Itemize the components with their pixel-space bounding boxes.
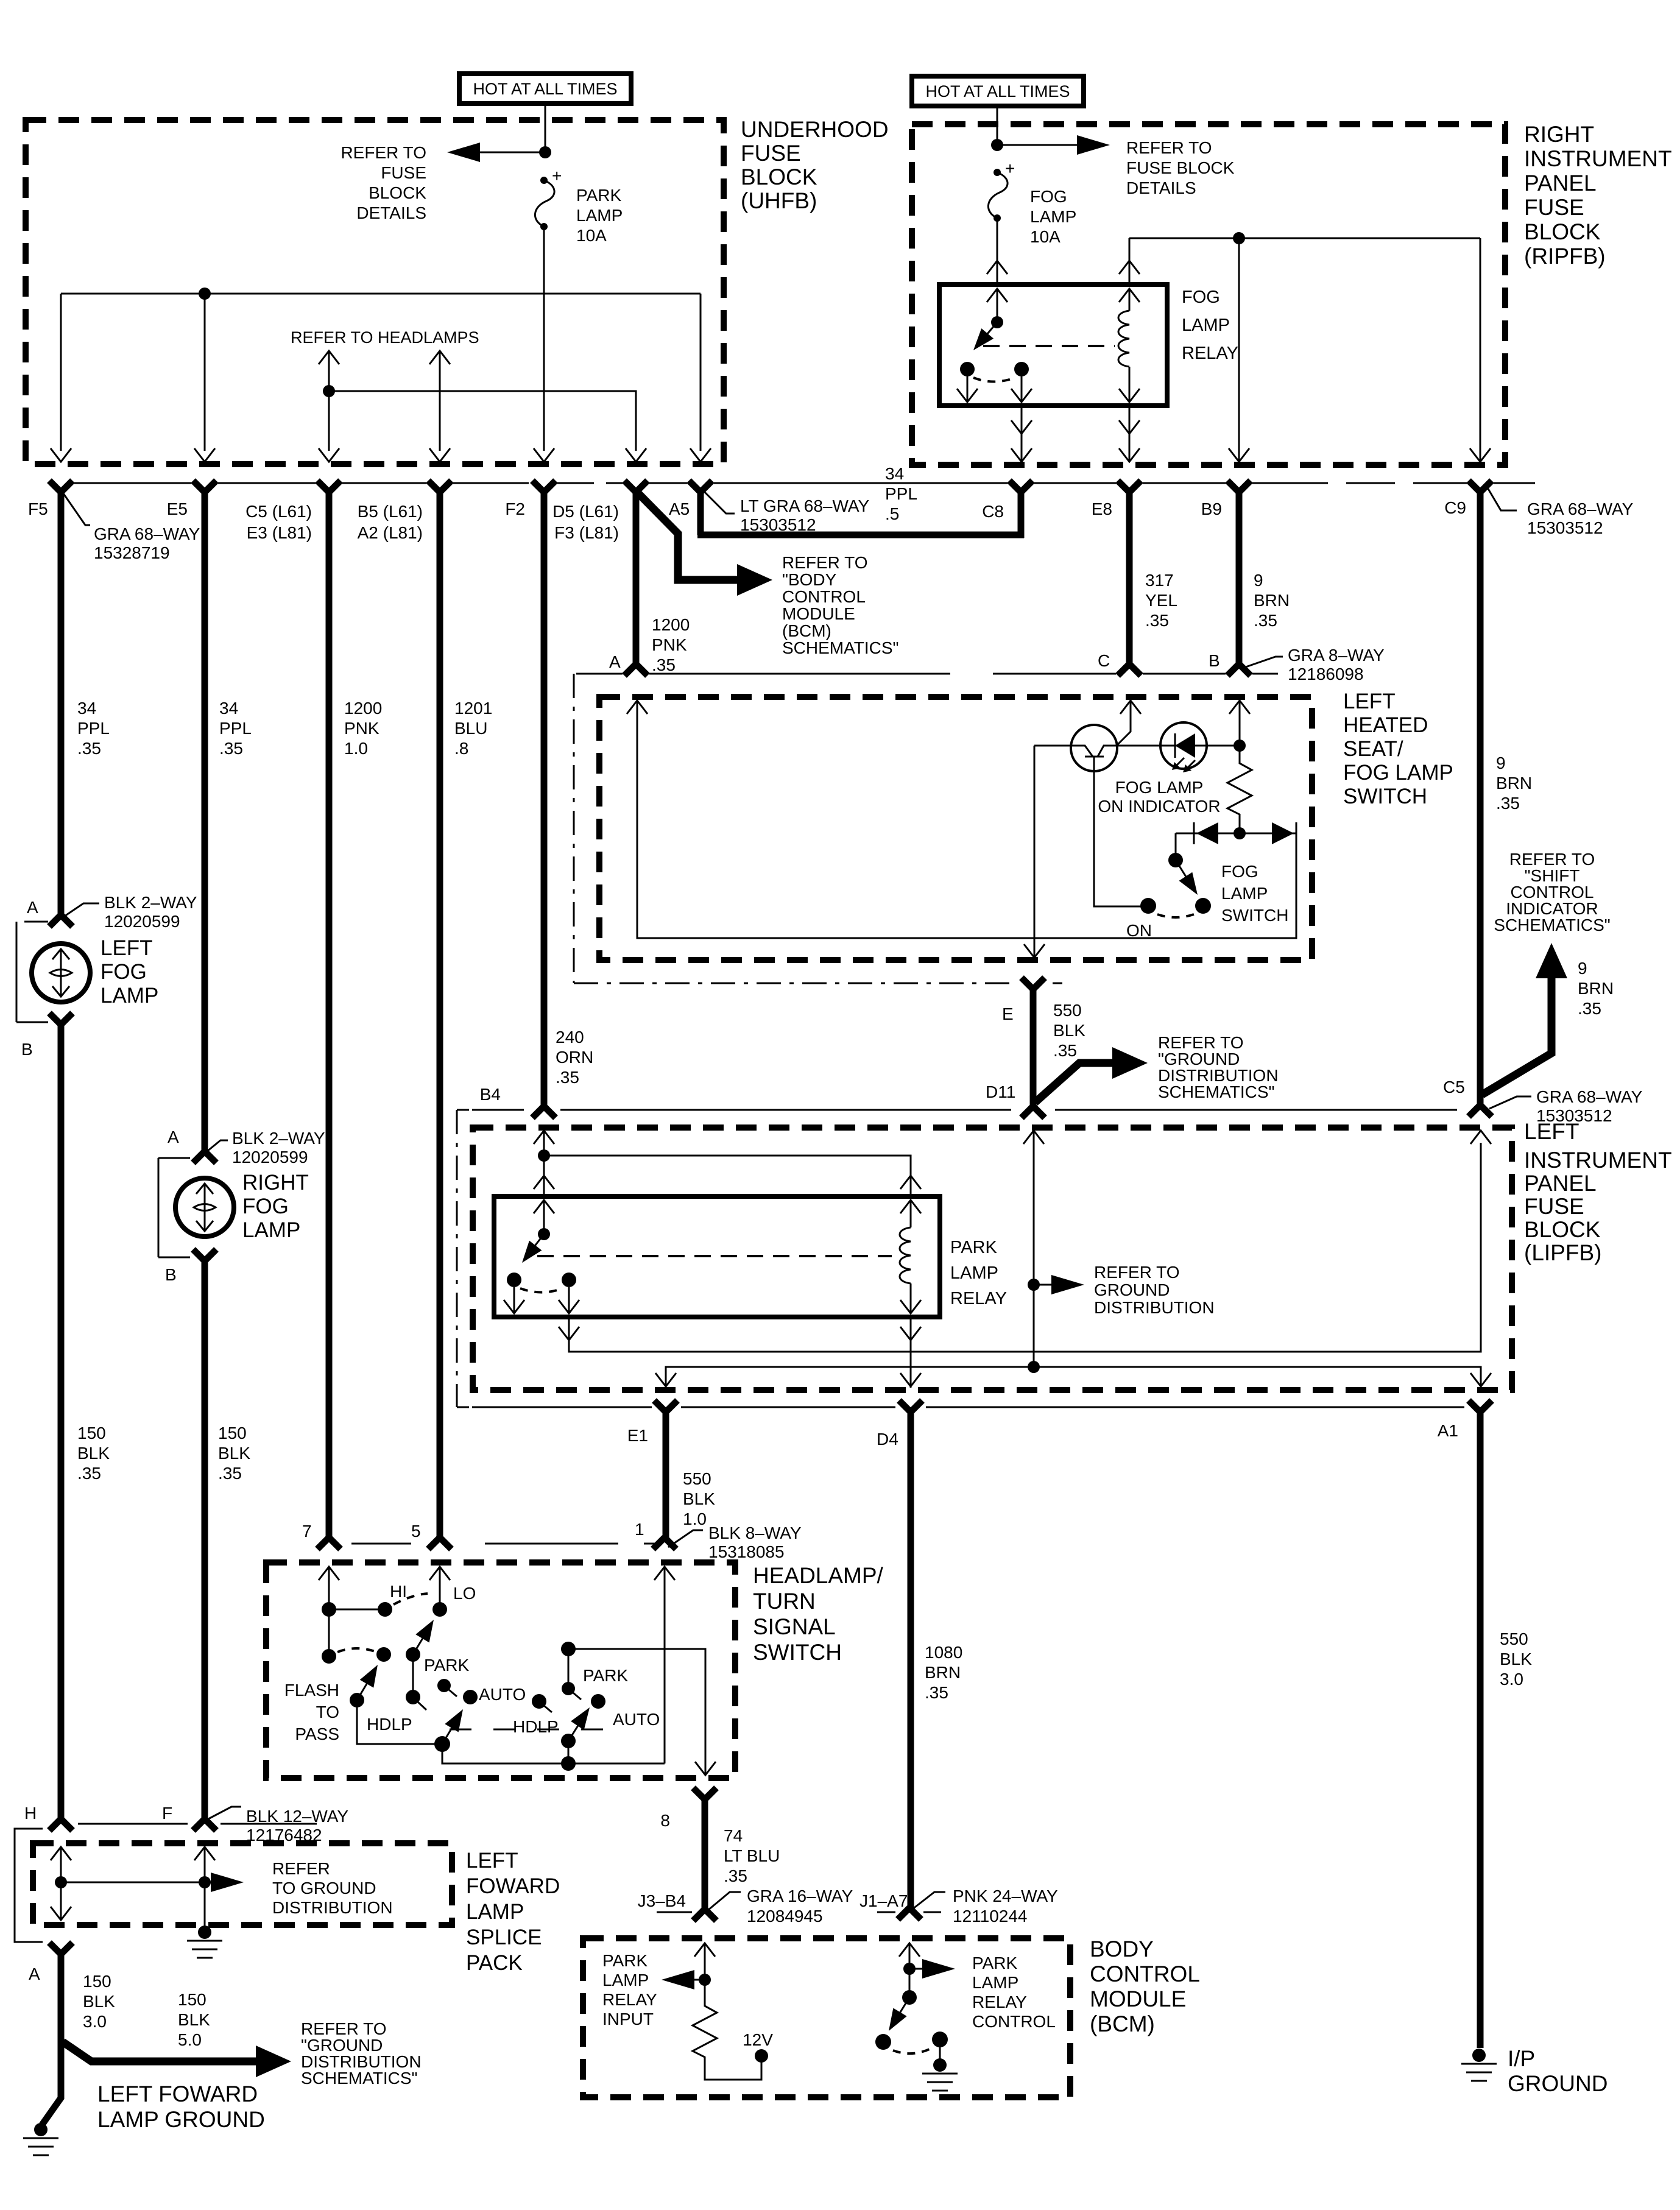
wire LO entry (429, 1567, 450, 1580)
diode right (1272, 822, 1294, 844)
wire C5 to headlamp switch, 1200 PNK 1.0 (326, 491, 333, 1539)
wire F leg (194, 1847, 215, 1860)
svg-text:A: A (29, 1965, 40, 1983)
switch auto selector blade right (561, 1734, 576, 1748)
svg-text:74: 74 (724, 1826, 743, 1845)
label GRA 16-WAY 12084945 (708, 1892, 741, 1910)
svg-text:LAMP: LAMP (950, 1263, 998, 1283)
svg-text:.35: .35 (1578, 999, 1601, 1018)
svg-text:5: 5 (411, 1522, 421, 1541)
outer partial dash-dot box (457, 1109, 469, 1111)
svg-text:1.0: 1.0 (344, 739, 368, 758)
svg-text:B: B (21, 1040, 33, 1059)
svg-text:1200: 1200 (344, 699, 382, 718)
svg-text:LO: LO (453, 1584, 476, 1603)
svg-text:LAMP: LAMP (466, 1900, 524, 1924)
svg-text:12V: 12V (743, 2030, 773, 2049)
svg-text:GROUND: GROUND (1508, 2071, 1608, 2096)
svg-text:FOG: FOG (101, 960, 147, 984)
relay switch feed (534, 1200, 554, 1213)
svg-text:PPL: PPL (77, 719, 110, 738)
wire E to D11, 550 BLK .35 (1030, 988, 1037, 1107)
svg-text:B5 (L61): B5 (L61) (358, 502, 423, 521)
body control module dashed box (583, 1938, 1070, 2097)
svg-text:"BODY: "BODY (782, 570, 837, 589)
svg-text:BLOCK: BLOCK (369, 183, 426, 202)
fuse FOG LAMP 10A (988, 159, 1076, 246)
connector D4 (899, 1400, 922, 1412)
wire coil to D4 exit (910, 1317, 912, 1388)
node junction HI column (322, 1602, 336, 1617)
wire A1 to I/P ground, 550 BLK 3.0 (1477, 1411, 1484, 2048)
relay contact exits (967, 376, 969, 401)
svg-text:A1: A1 (1438, 1421, 1458, 1440)
svg-text:5.0: 5.0 (178, 2030, 202, 2049)
wire right fog lamp B down, 150 BLK .35 (202, 1260, 208, 1820)
svg-text:FUSE: FUSE (741, 141, 801, 166)
label GRA 8-WAY 12186098 (1244, 657, 1283, 668)
label BLK 2-WAY 12020599 (65, 903, 99, 916)
outer partial dash-dot box (574, 674, 1062, 983)
wire B4 feed entry (534, 1131, 554, 1144)
svg-text:.8: .8 (454, 739, 468, 758)
svg-text:1200: 1200 (652, 615, 690, 634)
svg-text:LAMP: LAMP (101, 984, 158, 1008)
connector F2 (532, 481, 556, 492)
svg-text:1.0: 1.0 (683, 1509, 707, 1528)
wire branch 150 BLK 5.0 thick arrow (63, 2042, 256, 2061)
svg-text:.35: .35 (1145, 611, 1169, 630)
svg-text:AUTO: AUTO (479, 1685, 526, 1704)
svg-text:REFER TO: REFER TO (341, 143, 426, 162)
svg-text:BLOCK: BLOCK (1524, 1217, 1601, 1242)
svg-text:PPL: PPL (885, 484, 917, 503)
svg-text:LEFT FOWARD: LEFT FOWARD (97, 2081, 258, 2106)
svg-text:RIGHT: RIGHT (242, 1171, 309, 1195)
wire connector plane line (74, 482, 687, 484)
switch fog lamp switch (1175, 833, 1177, 860)
relay contact exits (514, 1287, 515, 1312)
wire ground distribution thick arrow (1035, 1063, 1112, 1103)
svg-text:FOG: FOG (242, 1195, 289, 1218)
wire coil top to bus (1129, 238, 1131, 284)
svg-text:RELAY: RELAY (972, 1993, 1027, 2011)
svg-text:F3 (L81): F3 (L81) (554, 523, 619, 542)
svg-text:GRA 8–WAY: GRA 8–WAY (1288, 646, 1385, 665)
svg-text:FOG: FOG (1221, 862, 1258, 881)
svg-text:FUSE BLOCK: FUSE BLOCK (1126, 158, 1235, 177)
wire connector plane top (B4/D11/C5) (472, 1109, 1457, 1111)
svg-text:1: 1 (635, 1520, 644, 1539)
svg-text:E8: E8 (1092, 500, 1112, 518)
svg-text:PANEL: PANEL (1524, 1171, 1597, 1196)
wire fuse down to F2 exit (543, 227, 545, 451)
wire horizontal bus y=482 (61, 293, 701, 295)
wire horizontal bus y=391 (1129, 238, 1480, 239)
svg-text:LT BLU: LT BLU (724, 1846, 780, 1865)
svg-text:9: 9 (1578, 959, 1587, 978)
svg-text:.35: .35 (556, 1068, 579, 1087)
svg-text:FUSE: FUSE (381, 163, 426, 182)
UHFB bottom edge exit chevrons (51, 448, 71, 462)
svg-text:SWITCH: SWITCH (1343, 785, 1427, 808)
switch dimmer blade to LO (406, 1647, 420, 1662)
wire headlamp arrow B5 (429, 351, 450, 364)
svg-text:BLK: BLK (1500, 1650, 1532, 1668)
svg-text:B9: B9 (1201, 500, 1222, 518)
svg-text:150: 150 (83, 1972, 111, 1991)
fuse PARK LAMP 10A (535, 166, 623, 245)
connector F5 (49, 481, 72, 492)
node LO column dot (432, 1602, 447, 1617)
wire J3-B4 entry park lamp relay input (694, 1943, 715, 1957)
svg-text:PNK 24–WAY: PNK 24–WAY (953, 1887, 1058, 1905)
svg-text:A5: A5 (669, 500, 690, 518)
connector E5 (193, 481, 216, 492)
svg-text:240: 240 (556, 1028, 584, 1047)
relay coil (1119, 289, 1140, 302)
svg-text:ON: ON (1126, 921, 1152, 940)
relay FOG LAMP RELAY box (939, 284, 1167, 406)
svg-text:BLK: BLK (218, 1444, 250, 1463)
wire HI cross link (329, 1609, 385, 1611)
label LT GRA 68-WAY 15303512 (705, 492, 735, 514)
svg-text:UNDERHOOD: UNDERHOOD (741, 117, 889, 142)
svg-text:PARK: PARK (972, 1954, 1017, 1972)
wire 1 entry (654, 1567, 675, 1580)
svg-text:34: 34 (885, 464, 904, 483)
wire relay to C8 (1021, 406, 1023, 462)
svg-text:1080: 1080 (925, 1643, 962, 1662)
node HOT AT ALL TIMES (left) (459, 74, 631, 104)
svg-text:LAMP: LAMP (242, 1218, 300, 1242)
svg-text:150: 150 (77, 1424, 106, 1442)
wire refer-to-fuse-block arrow (right) (997, 144, 1103, 146)
svg-text:B: B (1209, 651, 1220, 670)
svg-text:LAMP: LAMP (1030, 207, 1076, 226)
node junction at fog fuse top (991, 139, 1003, 151)
svg-text:GRA 16–WAY: GRA 16–WAY (747, 1887, 853, 1905)
svg-text:BLOCK: BLOCK (741, 164, 817, 189)
svg-text:SPLICE: SPLICE (466, 1926, 542, 1949)
connector J1-A7 (898, 1908, 921, 1919)
svg-text:FOG LAMP: FOG LAMP (1115, 778, 1204, 797)
svg-text:E: E (1002, 1004, 1014, 1023)
wire C9 to C5 long, 9 BRN .35 (1477, 491, 1484, 1106)
svg-text:12020599: 12020599 (232, 1148, 308, 1167)
right selector group: feed line (561, 1642, 576, 1656)
ground left foward lamp ground (23, 2123, 58, 2155)
svg-text:GROUND: GROUND (1094, 1280, 1170, 1299)
relay switch blade (531, 1234, 544, 1251)
connector A1 (1469, 1400, 1492, 1412)
wire B9 drop (1238, 238, 1240, 462)
svg-text:REFER: REFER (272, 1859, 330, 1878)
svg-text:DISTRIBUTION: DISTRIBUTION (272, 1898, 393, 1917)
connector D5 (624, 481, 648, 492)
wire feed to coil (544, 1156, 911, 1196)
resistor fog switch (1227, 746, 1252, 833)
svg-text:SEAT/: SEAT/ (1343, 737, 1403, 761)
svg-text:C9: C9 (1444, 498, 1466, 517)
svg-text:D11: D11 (986, 1082, 1015, 1101)
connector A fog switch (624, 664, 648, 676)
svg-text:.35: .35 (724, 1866, 747, 1885)
node junction E5 (199, 288, 211, 300)
svg-text:YEL: YEL (1145, 591, 1177, 610)
svg-text:10A: 10A (576, 226, 607, 245)
connector J3-B4 (693, 1909, 716, 1921)
connector A5 (689, 481, 712, 492)
wire exit 8 (693, 1788, 716, 1799)
node 12V (755, 2049, 768, 2063)
svg-text:TO GROUND: TO GROUND (272, 1879, 376, 1898)
svg-text:BLK: BLK (83, 1992, 115, 2011)
svg-text:LEFT: LEFT (466, 1849, 518, 1873)
svg-text:SIGNAL: SIGNAL (753, 1614, 836, 1639)
svg-text:INPUT: INPUT (602, 2010, 654, 2028)
svg-text:BRN: BRN (1254, 591, 1290, 610)
svg-text:1201: 1201 (454, 699, 492, 718)
svg-text:FLASH: FLASH (284, 1681, 339, 1700)
wire selector bottom (442, 1744, 665, 1763)
svg-text:HDLP: HDLP (367, 1715, 412, 1734)
svg-text:(BCM): (BCM) (782, 621, 831, 640)
svg-text:.35: .35 (652, 655, 676, 674)
wire left fog lamp B down, 150 BLK .35 (58, 1023, 65, 1820)
svg-text:CONTROL: CONTROL (782, 587, 866, 606)
relay actuation dashed line (983, 345, 1115, 347)
label GRA 68-WAY 15303512 (1487, 487, 1517, 510)
svg-text:SCHEMATICS": SCHEMATICS" (1494, 916, 1610, 934)
connector E1 (654, 1400, 677, 1412)
wire from HOT box 2 to fuse (997, 105, 998, 145)
wire refer to ground distribution arrow (1034, 1284, 1077, 1286)
contact PARK right (568, 1649, 570, 1689)
svg-text:150: 150 (178, 1990, 206, 2009)
wire connector plane line / outer box top edge (576, 673, 1278, 675)
node junction refer-ground (1028, 1279, 1040, 1291)
svg-text:FOG LAMP: FOG LAMP (1343, 761, 1453, 785)
svg-text:.5: .5 (885, 504, 899, 523)
svg-text:BRN: BRN (925, 1663, 961, 1682)
wire right contact to C5 vertical (569, 1143, 1481, 1352)
svg-text:34: 34 (77, 699, 96, 718)
wire connector plane line (657, 1912, 941, 1913)
svg-text:+: + (1005, 159, 1015, 178)
svg-text:RELAY: RELAY (602, 1990, 657, 2009)
svg-text:LEFT: LEFT (1343, 690, 1396, 713)
svg-text:(RIPFB): (RIPFB) (1524, 244, 1606, 269)
connector C5 (1469, 1105, 1492, 1117)
wire horizontal y=642 to D5 (329, 391, 636, 451)
svg-text:BLK: BLK (683, 1489, 715, 1508)
svg-text:BLK: BLK (1053, 1021, 1085, 1040)
svg-text:12084945: 12084945 (747, 1907, 823, 1926)
svg-text:317: 317 (1145, 571, 1174, 590)
svg-text:TURN: TURN (753, 1589, 816, 1614)
svg-text:C5: C5 (1443, 1078, 1465, 1096)
svg-text:HEADLAMP/: HEADLAMP/ (753, 1563, 884, 1588)
relay contacts (960, 362, 975, 376)
relay switch feed (987, 289, 1008, 302)
wire connector plane line (714, 482, 1535, 484)
svg-text:BRN: BRN (1578, 979, 1614, 998)
svg-text:(BCM): (BCM) (1090, 2011, 1155, 2036)
svg-text:CONTROL: CONTROL (1090, 1961, 1200, 1986)
svg-text:B: B (165, 1265, 177, 1284)
label PNK 24-WAY 12110244 (912, 1892, 945, 1909)
label BLK 2-WAY 12020599 (207, 1140, 228, 1151)
wire D4 to BCM, 1080 BRN .35 (908, 1411, 914, 1909)
contact AUTO left (463, 1690, 478, 1704)
svg-text:E5: E5 (167, 500, 188, 518)
svg-text:.35: .35 (1053, 1041, 1077, 1060)
wire connector plane bottom (472, 1407, 1464, 1408)
connector C5 (317, 481, 341, 492)
ground BCM internal (939, 2039, 941, 2060)
svg-text:AUTO: AUTO (613, 1710, 660, 1729)
svg-text:TO: TO (316, 1703, 339, 1721)
connector H (49, 1819, 72, 1830)
wire J1-A7 entry park lamp relay control (899, 1943, 920, 1957)
wire refer-to-fuse-block arrow (left) (453, 152, 545, 154)
svg-text:PPL: PPL (219, 719, 252, 738)
svg-text:PACK: PACK (466, 1951, 523, 1975)
svg-text:B4: B4 (480, 1085, 501, 1104)
svg-text:.35: .35 (1496, 794, 1520, 813)
svg-text:PASS: PASS (295, 1725, 339, 1743)
svg-text:+: + (552, 166, 562, 185)
svg-text:.35: .35 (925, 1683, 948, 1702)
svg-text:INSTRUMENT: INSTRUMENT (1524, 1148, 1672, 1173)
svg-text:15328719: 15328719 (94, 543, 170, 562)
wire E5 drop (204, 294, 206, 451)
svg-text:BLK 2–WAY: BLK 2–WAY (232, 1129, 325, 1148)
svg-text:BLU: BLU (454, 719, 487, 738)
wire A entry loop (627, 701, 648, 714)
svg-text:LAMP: LAMP (602, 1971, 649, 1989)
svg-text:LAMP: LAMP (576, 206, 623, 225)
svg-text:.35: .35 (219, 739, 243, 758)
svg-text:C8: C8 (982, 502, 1004, 521)
svg-text:7: 7 (302, 1522, 312, 1541)
svg-text:REFER TO: REFER TO (1126, 138, 1212, 157)
svg-text:C5 (L61): C5 (L61) (245, 502, 312, 521)
heated seat / fog lamp switch dashed box (599, 697, 1312, 960)
svg-text:D5 (L61): D5 (L61) (552, 502, 619, 521)
svg-text:FOWARD: FOWARD (466, 1874, 560, 1898)
svg-text:FOG: FOG (1182, 288, 1220, 307)
svg-text:9: 9 (1254, 571, 1263, 590)
svg-text:GRA 68–WAY: GRA 68–WAY (1536, 1087, 1643, 1106)
svg-text:MODULE: MODULE (1090, 1986, 1186, 2011)
svg-text:ON INDICATOR: ON INDICATOR (1098, 797, 1220, 816)
svg-text:PANEL: PANEL (1524, 171, 1597, 196)
switch flash to pass blade (376, 1647, 391, 1662)
svg-text:PNK: PNK (652, 635, 687, 654)
svg-text:BLK 2–WAY: BLK 2–WAY (104, 893, 197, 912)
connector F (193, 1819, 216, 1830)
svg-text:A: A (609, 652, 621, 671)
wire E8 to C, 317 YEL .35 (1126, 491, 1133, 665)
svg-text:GRA 68–WAY: GRA 68–WAY (94, 524, 200, 543)
splice pack dashed box (33, 1843, 452, 1925)
svg-text:3.0: 3.0 (1500, 1670, 1523, 1689)
label BLK 8-WAY 15318085 (668, 1530, 703, 1547)
wire connector plane line H/F (78, 1823, 317, 1825)
label BLK 12-WAY 12176482 (208, 1807, 241, 1819)
svg-text:PARK: PARK (602, 1951, 648, 1970)
node junction ground bus (1028, 1361, 1040, 1373)
node junction C5/D5 (323, 385, 335, 397)
svg-text:FOG: FOG (1030, 187, 1067, 206)
wire A to left foward lamp ground, 150 BLK 3.0 (42, 1953, 61, 2125)
svg-text:RIGHT: RIGHT (1524, 122, 1594, 147)
svg-text:HOT AT ALL TIMES: HOT AT ALL TIMES (925, 82, 1070, 101)
svg-text:D4: D4 (877, 1430, 898, 1449)
connector D11 (1022, 1106, 1045, 1118)
dashed mechanical link (450, 1729, 603, 1731)
svg-text:PARK: PARK (950, 1238, 997, 1257)
svg-text:.35: .35 (1254, 611, 1277, 630)
lamp LEFT FOG LAMP (32, 944, 90, 1002)
svg-text:PNK: PNK (344, 719, 379, 738)
contact PARK left (437, 1679, 451, 1692)
svg-text:LAMP GROUND: LAMP GROUND (97, 2107, 265, 2132)
contact AUTO right (591, 1694, 605, 1709)
svg-text:LAMP: LAMP (972, 1973, 1018, 1992)
wire B entry (1229, 701, 1250, 714)
svg-text:12110244: 12110244 (953, 1907, 1028, 1926)
svg-text:LT GRA 68–WAY: LT GRA 68–WAY (740, 496, 869, 515)
svg-text:.35: .35 (218, 1464, 242, 1483)
wire coil to E8 (1129, 406, 1131, 462)
svg-text:PARK: PARK (576, 186, 621, 205)
svg-text:BRN: BRN (1496, 774, 1532, 793)
wire F5 drop (60, 294, 62, 451)
svg-text:F: F (162, 1804, 172, 1823)
node junction B4 feed (538, 1149, 550, 1162)
svg-text:A2 (L81): A2 (L81) (358, 523, 423, 542)
svg-text:550: 550 (1500, 1629, 1528, 1648)
wire headlamp arrow C5 (319, 351, 339, 364)
label GRA 68-WAY 15328719 (63, 493, 90, 525)
connector B fog switch (1227, 664, 1251, 676)
svg-text:A: A (168, 1128, 179, 1146)
svg-text:E3 (L81): E3 (L81) (247, 523, 312, 542)
lamp RIGHT FOG LAMP (175, 1178, 234, 1237)
label GRA 68-WAY 15303512 (C5) (1489, 1096, 1531, 1109)
contact HDLP right (532, 1694, 546, 1709)
node junction H (55, 1876, 67, 1888)
svg-text:15303512: 15303512 (1527, 518, 1603, 537)
wire BCM branch from D5 (638, 493, 740, 580)
svg-text:550: 550 (1053, 1001, 1082, 1020)
svg-text:550: 550 (683, 1469, 711, 1488)
wire E drop from transistor base (1034, 746, 1036, 956)
ground I/P GROUND (1461, 2049, 1497, 2081)
connector 7 (317, 1537, 341, 1549)
svg-text:HDLP: HDLP (513, 1717, 559, 1736)
wire D11 ground feed (1023, 1131, 1044, 1144)
connector B left fog lamp (49, 1013, 72, 1025)
connector 1 (653, 1537, 676, 1549)
svg-text:PARK: PARK (424, 1656, 469, 1675)
left instrument panel fuse block dashed box (473, 1128, 1512, 1390)
connector A splice (49, 1943, 72, 1954)
connector B5 (428, 481, 451, 492)
